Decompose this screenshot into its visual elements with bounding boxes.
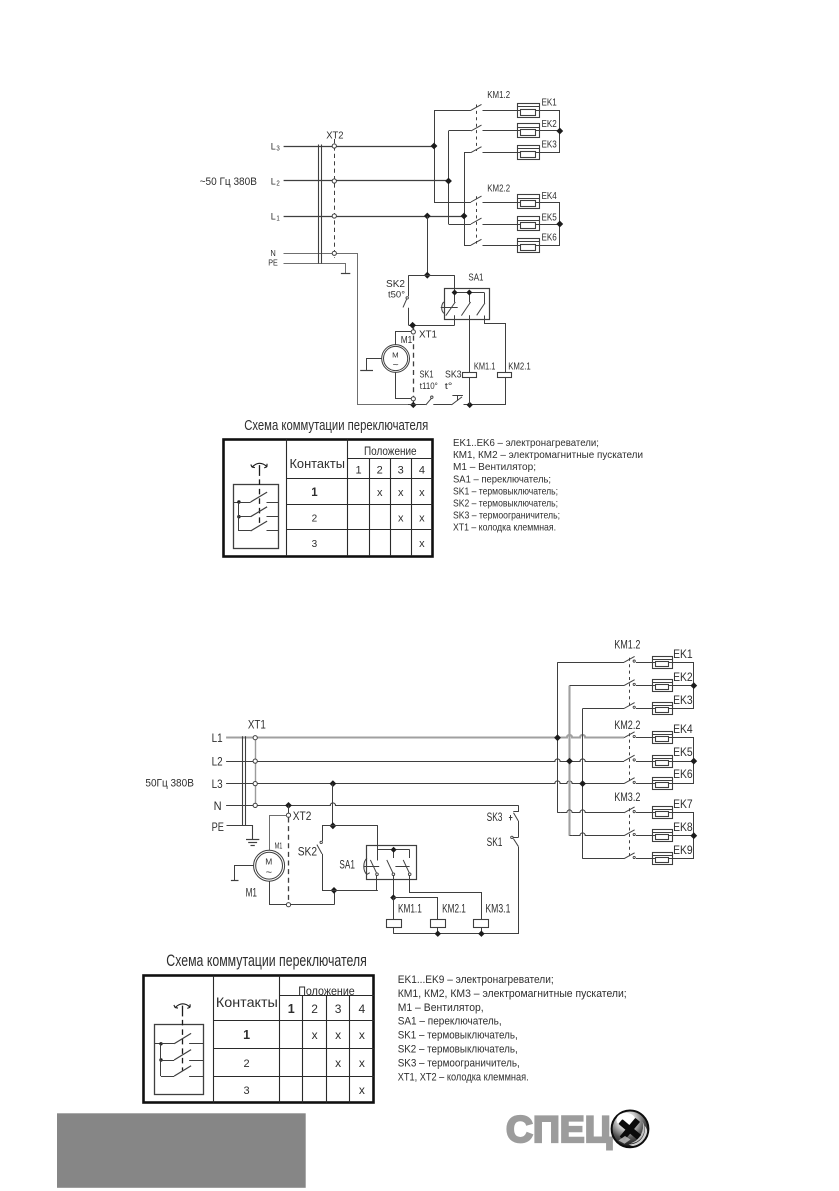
svg-text:SA1 – переключатель;: SA1 – переключатель; bbox=[453, 473, 551, 485]
switch pictogram (table 1) bbox=[233, 463, 278, 548]
label PE (top) bbox=[268, 258, 278, 268]
label L1 (bottom) bbox=[212, 733, 223, 745]
svg-text:4: 4 bbox=[359, 1002, 366, 1016]
svg-text:x: x bbox=[398, 512, 404, 524]
svg-text:EK3: EK3 bbox=[673, 695, 693, 707]
label EK7 bbox=[673, 799, 693, 811]
label SA1 (top) bbox=[468, 271, 483, 283]
table 2 row label contact 1 bbox=[243, 1028, 250, 1042]
junction node L2/feeder (bottom) bbox=[566, 758, 573, 765]
table 2 row label contact 2 bbox=[244, 1058, 250, 1070]
svg-text:3: 3 bbox=[276, 145, 279, 152]
table 2 row 2 marks bbox=[335, 1056, 365, 1070]
label SK3 (bottom) bbox=[487, 812, 503, 824]
wire loop top bbox=[409, 275, 455, 277]
svg-text:SK1: SK1 bbox=[487, 837, 503, 849]
junction node L1/SA1 branch bbox=[424, 213, 431, 220]
wire EK9 row bbox=[586, 858, 624, 860]
junction node loop top bbox=[424, 272, 431, 279]
heater EK2 bbox=[652, 680, 672, 692]
terminal XT2 pin N bbox=[332, 251, 336, 255]
wire motor M1 top lead bbox=[396, 332, 412, 345]
label M1 (top) bbox=[401, 334, 413, 346]
terminal XT1 pin top bbox=[411, 330, 415, 334]
contact KM1.2 pole 3 bbox=[471, 147, 517, 153]
contact KM2.2 pole 1 bbox=[471, 196, 517, 202]
terminal XT2 pin L3 bbox=[332, 144, 336, 148]
coil KM2.1 (top) bbox=[498, 373, 512, 405]
table 2 row 1 marks bbox=[312, 1028, 365, 1042]
junction node KM1.2 star mid bbox=[690, 682, 697, 689]
heater EK1 bbox=[517, 104, 539, 118]
table 2 grid bbox=[144, 976, 375, 1103]
terminal XT2 dashed line bbox=[288, 818, 290, 903]
heater EK2 bbox=[517, 124, 539, 138]
ground PE earth symbol (bottom) bbox=[246, 840, 259, 846]
svg-text:2: 2 bbox=[311, 1002, 318, 1016]
svg-text:KM2.1: KM2.1 bbox=[442, 904, 466, 916]
switch SA1 blade 1 bbox=[446, 302, 456, 316]
contact KM2.2 pole 1 bbox=[624, 732, 652, 738]
label EK1 bbox=[542, 97, 557, 109]
svg-text:x: x bbox=[312, 1028, 318, 1042]
svg-text:SK3: SK3 bbox=[487, 812, 503, 824]
svg-text:Схема коммутации переключателя: Схема коммутации переключателя bbox=[166, 952, 366, 970]
label EK2 bbox=[673, 672, 693, 684]
svg-text:x: x bbox=[335, 1028, 341, 1042]
table 1 header Polozhenie bbox=[364, 446, 417, 458]
motor M1 (bottom) bbox=[254, 850, 285, 881]
switch SA1 input wire bbox=[454, 275, 456, 302]
contact KM2.2 pole 3 bbox=[624, 778, 652, 784]
label SA1 (bottom) bbox=[339, 859, 355, 871]
label XT1 (bottom) bbox=[248, 720, 266, 732]
switch SA1 output pin 1 (bottom) bbox=[376, 876, 378, 891]
junction node N/motor branch bbox=[285, 802, 292, 809]
heater EK8 bbox=[652, 830, 672, 842]
gray footer block bbox=[57, 1113, 306, 1188]
svg-text:EK1: EK1 bbox=[542, 97, 557, 109]
svg-text:EK1: EK1 bbox=[673, 649, 693, 661]
svg-text:EK6: EK6 bbox=[673, 769, 693, 781]
junction node L2/feeder bbox=[445, 178, 452, 185]
wire PE (bottom schematic) bbox=[227, 826, 253, 840]
motor M1 (top) bbox=[382, 345, 410, 373]
net L2 (top schematic) supply line bbox=[284, 180, 449, 182]
svg-text:SK1 – термовыключатель,: SK1 – термовыключатель, bbox=[398, 1030, 518, 1042]
legend list (lower schematic) bbox=[398, 974, 627, 1083]
terminal XT1 pin L3 bbox=[253, 782, 257, 786]
svg-text:Контакты: Контакты bbox=[216, 994, 278, 1010]
svg-text:KM2.2: KM2.2 bbox=[487, 183, 510, 195]
label EK8 bbox=[673, 822, 693, 834]
terminal XT2 pin L1 bbox=[332, 214, 336, 218]
heater EK3 bbox=[652, 703, 672, 715]
svg-text:EK3: EK3 bbox=[542, 139, 557, 151]
label N (top) bbox=[270, 248, 275, 258]
wire L3 branch down to SK2 loop bbox=[332, 784, 334, 826]
label EK5 bbox=[542, 212, 557, 224]
table 1 row 3 marks bbox=[419, 538, 425, 550]
svg-text:KM3.1: KM3.1 bbox=[485, 904, 510, 916]
wire bottom rail segment C bbox=[464, 404, 506, 406]
svg-text:50Гц 380В: 50Гц 380В bbox=[145, 778, 194, 790]
label KM2.2 bbox=[487, 183, 510, 195]
svg-text:x: x bbox=[335, 1056, 341, 1070]
svg-text:SK1: SK1 bbox=[420, 369, 434, 381]
wire L3 feeder to contacts KM1.2/KM2.2 pole 1 bbox=[434, 110, 471, 202]
svg-text:~: ~ bbox=[393, 360, 399, 370]
svg-text:SA1: SA1 bbox=[339, 859, 355, 871]
svg-text:EK2: EK2 bbox=[542, 118, 557, 130]
wire SK2 loop top bbox=[322, 825, 378, 827]
wire L1 branch down to SK2/SA1 loop bbox=[427, 216, 429, 275]
thermal limiter SK3 (top schematic) bbox=[452, 396, 463, 405]
contact KM3.2 pole 1 bbox=[624, 807, 652, 813]
svg-text:SK3 – термоограничитель,: SK3 – термоограничитель, bbox=[398, 1057, 520, 1069]
label EK6 bbox=[542, 232, 557, 244]
net N (top schematic) neutral wire to bottom rail bbox=[284, 254, 409, 405]
wire EK7 row bbox=[561, 810, 624, 813]
ground motor M1 bar (bottom) bbox=[231, 880, 239, 882]
junction node loop bottom/motor bbox=[331, 887, 338, 894]
svg-text:KM1.2: KM1.2 bbox=[487, 89, 510, 101]
svg-text:Положение: Положение bbox=[364, 446, 417, 458]
wire XT1 bottom stub to rail bbox=[413, 401, 415, 405]
junction node EK2 star bbox=[556, 128, 563, 135]
heater EK7 bbox=[652, 807, 672, 819]
thermal limiter SK3 (bottom) bbox=[509, 812, 519, 821]
svg-text:x: x bbox=[359, 1083, 365, 1097]
label KM2.2 bbox=[614, 720, 640, 732]
legend list (upper schematic) bbox=[453, 437, 643, 534]
label EK6 bbox=[673, 769, 693, 781]
svg-text:XT1: XT1 bbox=[419, 329, 437, 341]
svg-text:EK7: EK7 bbox=[673, 799, 693, 811]
svg-text:КМ1, КМ2, КМ3 – электромагнитн: КМ1, КМ2, КМ3 – электромагнитные пускате… bbox=[398, 988, 627, 1000]
svg-text:KM1.1: KM1.1 bbox=[398, 904, 422, 916]
wire coil return rail (bottom) bbox=[394, 847, 519, 934]
svg-text:EK9: EK9 bbox=[673, 845, 693, 857]
mechanical link KM3.2 (dashed) bbox=[629, 808, 631, 856]
switch SA1 blade 3 (bottom) bbox=[403, 860, 411, 876]
svg-text:SK2: SK2 bbox=[298, 846, 317, 858]
wire motor M1 bottom lead bbox=[396, 373, 412, 399]
svg-text:SK1 – термовыключатель;: SK1 – термовыключатель; bbox=[453, 485, 558, 497]
wire SK2 loop bottom bbox=[322, 890, 378, 892]
terminal block XT2 bars (top) bbox=[319, 145, 322, 264]
svg-text:EK5: EK5 bbox=[673, 747, 693, 759]
contact KM2.2 pole 2 bbox=[471, 218, 517, 224]
table 1 row 2 marks bbox=[398, 512, 425, 524]
label EK3 bbox=[542, 139, 557, 151]
label t50 (top) bbox=[388, 289, 405, 300]
svg-text:2: 2 bbox=[377, 464, 383, 476]
label M1 small (bottom) bbox=[275, 842, 283, 851]
thermal switch SK2 (top) bbox=[403, 275, 409, 325]
svg-text:L3: L3 bbox=[212, 779, 223, 791]
wire PE (top schematic) bbox=[284, 264, 346, 274]
contact KM3.2 pole 3 bbox=[624, 853, 652, 859]
svg-text:SA1: SA1 bbox=[468, 271, 483, 283]
svg-text:ХТ1, ХТ2 – колодка клеммная.: ХТ1, ХТ2 – колодка клеммная. bbox=[398, 1071, 529, 1083]
label EK9 bbox=[673, 845, 693, 857]
terminal XT1 pin N bbox=[253, 803, 257, 807]
svg-text:1: 1 bbox=[288, 1002, 295, 1016]
switch SA1 blade 1 (bottom) bbox=[370, 860, 378, 876]
junction node rail/KM3.1 bbox=[478, 931, 484, 937]
contact KM3.2 pole 2 bbox=[624, 830, 652, 836]
svg-text:x: x bbox=[419, 538, 425, 550]
switch SA1 output pin 2 bbox=[469, 315, 471, 372]
svg-text:EK6: EK6 bbox=[542, 232, 557, 244]
terminal XT2 pin top (bottom schematic) bbox=[286, 813, 290, 817]
label L3 (bottom) bbox=[212, 779, 223, 791]
switch pictogram (table 2) bbox=[155, 1004, 204, 1095]
svg-text:XT1: XT1 bbox=[248, 720, 266, 732]
junction node KM2.2 star mid bbox=[690, 758, 697, 765]
switch SA1 output pin 3 bbox=[485, 316, 506, 373]
svg-text:3: 3 bbox=[398, 464, 404, 476]
svg-text:x: x bbox=[359, 1028, 365, 1042]
svg-text:KM1.1: KM1.1 bbox=[474, 360, 496, 372]
label L2 (top) bbox=[271, 177, 280, 188]
svg-text:t50°: t50° bbox=[388, 289, 405, 300]
table 2 position numbers 1 2 3 4 bbox=[288, 1002, 366, 1016]
switch SA1 internal bus (bottom) bbox=[378, 850, 410, 859]
junction node rail/KM2.1 bbox=[435, 931, 441, 937]
label EK2 bbox=[542, 118, 557, 130]
coil KM1.1 (top) bbox=[463, 373, 477, 405]
terminal block XT2 dashed line (top) bbox=[334, 139, 336, 258]
svg-text:1: 1 bbox=[276, 215, 279, 222]
svg-text:t110°: t110° bbox=[420, 381, 438, 392]
junction node XT1 tap bbox=[409, 322, 416, 329]
svg-text:2: 2 bbox=[276, 180, 279, 187]
net L3 (top schematic) supply line bbox=[284, 146, 434, 148]
mechanical link KM2.2 (dashed) bbox=[629, 733, 631, 781]
svg-text:KM1.2: KM1.2 bbox=[614, 639, 640, 651]
logo screw head emblem bbox=[611, 1110, 648, 1147]
svg-text:L2: L2 bbox=[212, 757, 223, 769]
junction node KM3.2 star mid bbox=[690, 832, 697, 839]
wire KM2.2 heater star bbox=[672, 738, 694, 784]
svg-text:SK3 – термоограничитель;: SK3 – термоограничитель; bbox=[453, 510, 560, 522]
label KM2.1 (bottom) bbox=[442, 904, 466, 916]
table 1 header Kontakty bbox=[289, 456, 345, 471]
heater EK3 bbox=[517, 146, 539, 160]
contact KM1.2 pole 2 bbox=[624, 680, 652, 686]
switch SA1 position rails (bottom) bbox=[364, 866, 410, 868]
svg-text:x: x bbox=[419, 512, 425, 524]
svg-text:N: N bbox=[270, 248, 275, 258]
wire SK1-SK3 link bbox=[518, 821, 520, 838]
wire motor M1 top lead (bottom) bbox=[270, 816, 287, 851]
svg-text:4: 4 bbox=[419, 464, 425, 476]
svg-text:SK2 – термовыключатель;: SK2 – термовыключатель; bbox=[453, 498, 558, 510]
svg-text:SK2 – термовыключатель,: SK2 – термовыключатель, bbox=[398, 1044, 518, 1056]
table 1 row label contact 3 bbox=[312, 539, 318, 550]
terminal XT2 pin L2 bbox=[332, 179, 336, 183]
junction node SK2 loop top bbox=[330, 822, 337, 829]
switch SA1 handle arc (bottom) bbox=[364, 858, 370, 874]
switch SA1 box (bottom) bbox=[367, 846, 417, 880]
junction node SA1 bus pin1 bbox=[452, 290, 458, 296]
label XT2 (top) bbox=[326, 130, 344, 142]
coil KM3.1 (bottom) bbox=[474, 920, 489, 934]
svg-text:x: x bbox=[377, 487, 383, 499]
switch SA1 box (top) bbox=[445, 289, 490, 320]
wire bottom rail segment B bbox=[433, 404, 451, 406]
wire KM1.2 heater star bbox=[672, 663, 694, 709]
svg-text:ХТ1 – колодка клеммная.: ХТ1 – колодка клеммная. bbox=[453, 522, 556, 534]
table 2 row label contact 3 bbox=[244, 1085, 250, 1097]
svg-text:L: L bbox=[271, 177, 276, 188]
svg-text:Схема коммутации переключателя: Схема коммутации переключателя bbox=[244, 417, 428, 434]
heater EK5 bbox=[517, 217, 539, 231]
terminal XT1 pin L1 bbox=[253, 736, 257, 740]
svg-text:XT2: XT2 bbox=[293, 811, 312, 823]
net L1 (top schematic) supply line bbox=[284, 216, 464, 218]
wire KM3.2 heater star bbox=[672, 813, 694, 859]
table 1 row label contact 2 bbox=[312, 513, 318, 524]
svg-text:М: М bbox=[265, 857, 272, 866]
wire L3 feeder vertical (bottom contacts pole 3) bbox=[583, 709, 625, 859]
label L2 (bottom) bbox=[212, 757, 223, 769]
table 1 row label contact 1 bbox=[311, 487, 318, 499]
net N (bottom schematic) neutral wire bbox=[226, 803, 518, 806]
label SK2 (top) bbox=[386, 278, 405, 290]
svg-text:~50 Гц 380В: ~50 Гц 380В bbox=[200, 176, 257, 188]
svg-text:3: 3 bbox=[335, 1002, 342, 1016]
svg-text:XT2: XT2 bbox=[326, 130, 344, 142]
label M1 (bottom) bbox=[246, 887, 257, 899]
table 1 position numbers 1 2 3 4 bbox=[355, 464, 425, 476]
svg-text:x: x bbox=[398, 487, 404, 499]
heater EK4 bbox=[517, 195, 539, 209]
label t deg (top) bbox=[445, 381, 453, 392]
mechanical link KM1.2 (dashed) bbox=[476, 105, 478, 152]
svg-text:EK8: EK8 bbox=[673, 822, 693, 834]
svg-text:СПЕЦ: СПЕЦ bbox=[506, 1109, 612, 1150]
svg-text:SK3: SK3 bbox=[445, 369, 462, 381]
label SK1 (bottom) bbox=[487, 837, 503, 849]
switch SA1 input wire (bottom) bbox=[377, 826, 379, 861]
svg-text:M1: M1 bbox=[401, 334, 413, 346]
contact KM2.2 pole 2 bbox=[624, 755, 652, 761]
svg-text:М1 – Вентилятор,: М1 – Вентилятор, bbox=[398, 1002, 484, 1014]
svg-text:x: x bbox=[419, 487, 425, 499]
label L3 (top) bbox=[271, 142, 280, 153]
junction node EK5 star bbox=[556, 221, 563, 228]
svg-text:КМ1, КМ2 – электромагнитные пу: КМ1, КМ2 – электромагнитные пускатели bbox=[453, 449, 643, 461]
svg-text:3: 3 bbox=[244, 1085, 250, 1097]
heater EK6 bbox=[517, 239, 539, 253]
label t110 (top) bbox=[420, 381, 438, 392]
junction node SA1 bus pin2 bbox=[466, 290, 472, 296]
svg-text:M1: M1 bbox=[246, 887, 257, 899]
heater EK5 bbox=[652, 756, 672, 768]
junction node KM1.1 feed bbox=[390, 894, 396, 900]
contact KM1.2 pole 1 bbox=[624, 656, 652, 662]
heater EK6 bbox=[652, 778, 672, 790]
title: switching diagram (lower) bbox=[166, 952, 366, 970]
svg-text:EK1..EK6 – электронагреватели;: EK1..EK6 – электронагреватели; bbox=[453, 437, 599, 449]
net L3 (bottom schematic) supply line bbox=[226, 781, 624, 784]
svg-text:EK2: EK2 bbox=[673, 672, 693, 684]
wire EK1-EK3 star point bbox=[539, 111, 560, 153]
svg-text:~: ~ bbox=[266, 868, 273, 879]
net L1 (bottom schematic) supply line bbox=[226, 735, 624, 738]
junction node L3/feeder bbox=[431, 143, 438, 150]
svg-text:Положение: Положение bbox=[298, 984, 355, 998]
label KM1.1 (bottom) bbox=[398, 904, 422, 916]
table 2 row 3 marks bbox=[359, 1083, 365, 1097]
wire motor M1 left lead bbox=[367, 359, 382, 371]
wire EK4-EK6 star point bbox=[539, 203, 560, 246]
switch SA1 handle axis bbox=[441, 302, 458, 314]
svg-text:1: 1 bbox=[311, 487, 318, 499]
contact KM2.2 pole 3 bbox=[471, 239, 517, 245]
svg-text:x: x bbox=[359, 1056, 365, 1070]
svg-text:1: 1 bbox=[355, 464, 361, 476]
junction node rail/motor branch bbox=[410, 402, 416, 408]
junction node L3/feeder (bottom) bbox=[579, 780, 586, 787]
label L1 (top) bbox=[271, 212, 280, 223]
table 1 row 1 marks bbox=[377, 487, 425, 499]
switch SA1 output pin 2 (bottom) bbox=[393, 876, 395, 898]
switch SA1 output pin 1 bbox=[454, 315, 456, 325]
label EK3 bbox=[673, 695, 693, 707]
label SK3 (top) bbox=[445, 369, 462, 381]
svg-text:N: N bbox=[214, 801, 222, 813]
wire EK8 row bbox=[573, 833, 624, 836]
svg-text:L: L bbox=[271, 212, 276, 223]
junction node SA1 bus (bottom) bbox=[391, 847, 397, 853]
label EK5 bbox=[673, 747, 693, 759]
table 1 grid bbox=[224, 439, 433, 556]
label SK2 (bottom) bbox=[298, 846, 317, 858]
label 50Hz 380V (bottom) bbox=[145, 778, 194, 790]
terminal XT1 dashed line (top) bbox=[413, 327, 415, 399]
heater EK4 bbox=[652, 732, 672, 744]
svg-text:М: М bbox=[392, 350, 399, 359]
svg-text:EK4: EK4 bbox=[673, 724, 693, 736]
switch SA1 blade 3 bbox=[477, 303, 485, 315]
wire L1 feeder vertical (bottom contacts pole 1) bbox=[558, 662, 625, 813]
svg-text:KM3.2: KM3.2 bbox=[614, 792, 640, 804]
table 2 header Polozhenie bbox=[298, 984, 355, 998]
net L2 (bottom schematic) supply line bbox=[226, 759, 624, 762]
label KM1.2 bbox=[614, 639, 640, 651]
junction node L1/feeder (bottom) bbox=[554, 734, 561, 741]
thermal switch SK1 (bottom) bbox=[511, 836, 519, 846]
title: switching diagram (upper) bbox=[244, 417, 428, 434]
wire KM2.1 feed bbox=[394, 898, 438, 920]
wire L2 feeder vertical (bottom contacts pole 2) bbox=[570, 686, 625, 836]
wire motor M1 left lead (bottom) bbox=[235, 866, 254, 881]
label KM1.2 bbox=[487, 89, 510, 101]
svg-text:EK4: EK4 bbox=[542, 190, 557, 202]
junction node L3/SK2 branch bbox=[330, 780, 337, 787]
svg-text:М1: М1 bbox=[275, 842, 283, 851]
label PE (bottom) bbox=[212, 822, 225, 834]
switch SA1 blade 2 bbox=[461, 302, 470, 316]
svg-text:L: L bbox=[271, 142, 276, 153]
wire L1 feeder to contacts pole 3 bbox=[464, 153, 471, 246]
coil KM2.1 (bottom) bbox=[431, 920, 446, 934]
svg-text:3: 3 bbox=[312, 539, 318, 550]
